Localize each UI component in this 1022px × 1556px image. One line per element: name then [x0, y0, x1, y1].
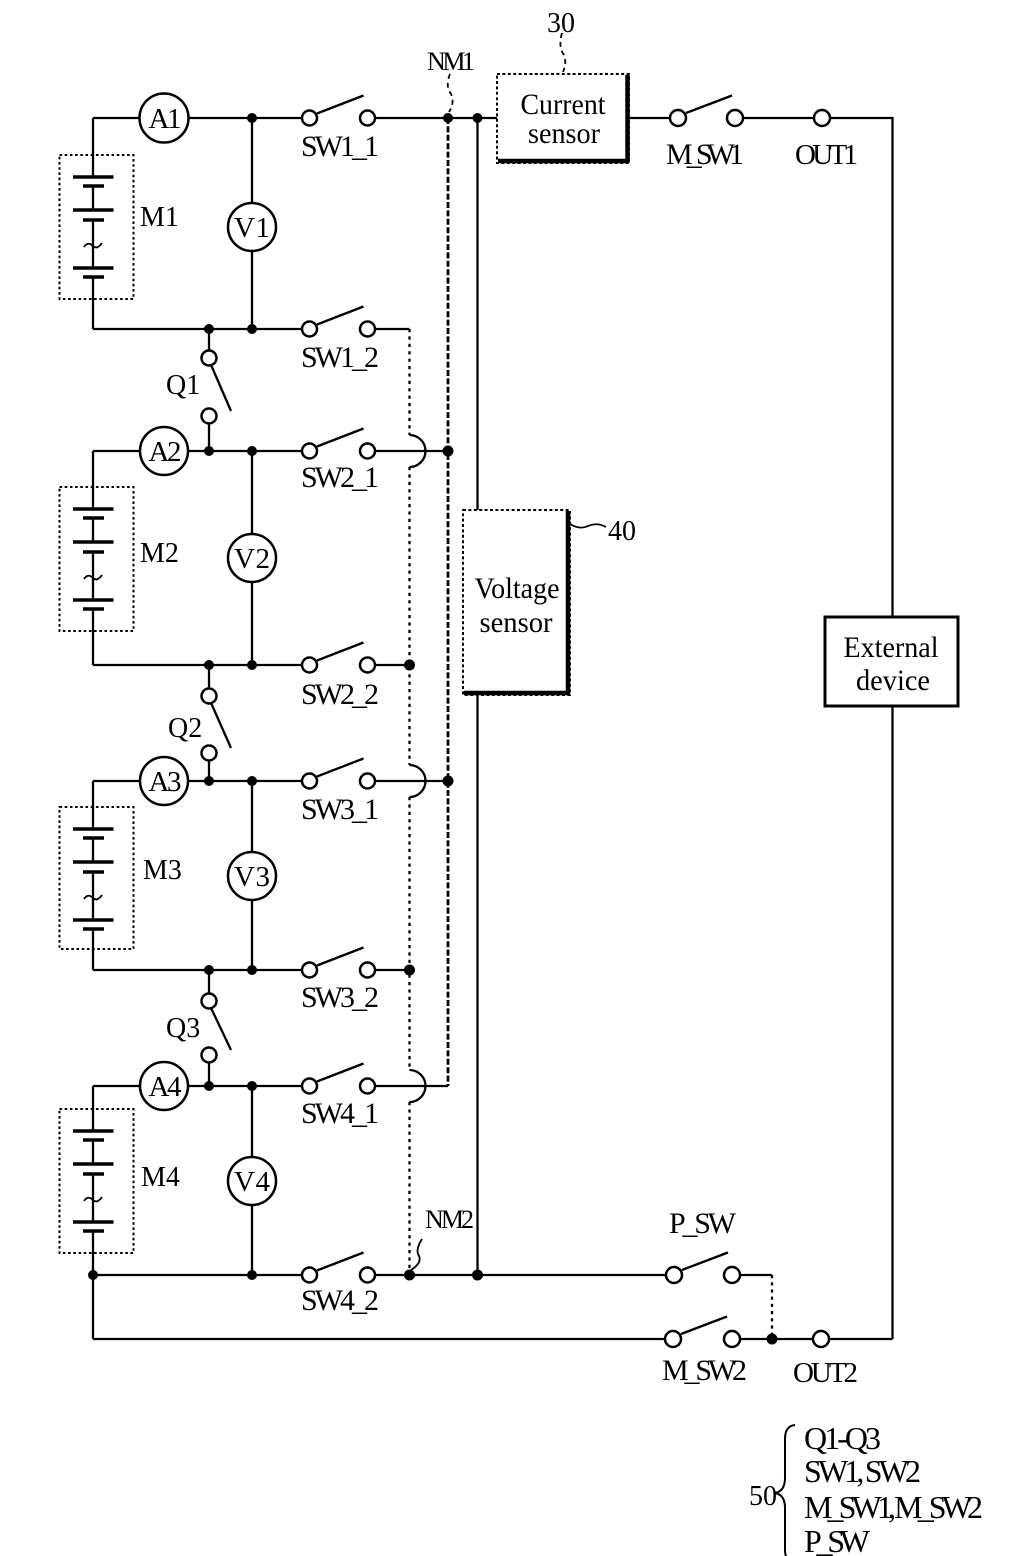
svg-text:M2: M2 [140, 538, 179, 569]
svg-text:OUT2: OUT2 [793, 1357, 858, 1389]
svg-text:M4: M4 [141, 1162, 180, 1193]
svg-text:SW4_2: SW4_2 [301, 1284, 379, 1317]
svg-text:SW3_1: SW3_1 [301, 793, 379, 826]
svg-text:SW1_1: SW1_1 [301, 130, 379, 163]
svg-text:Q1: Q1 [166, 370, 200, 401]
svg-text:Q2: Q2 [168, 713, 202, 744]
svg-text:sensor: sensor [528, 117, 600, 150]
svg-text:device: device [856, 664, 930, 697]
svg-text:P_SW: P_SW [804, 1523, 871, 1556]
svg-text:50: 50 [749, 1481, 777, 1512]
svg-text:Voltage: Voltage [475, 572, 560, 605]
svg-text:SW2_1: SW2_1 [301, 461, 379, 494]
svg-text:V4: V4 [234, 1166, 271, 1198]
svg-text:SW1, SW2: SW1, SW2 [804, 1453, 921, 1489]
svg-text:M_SW1: M_SW1 [666, 138, 744, 171]
svg-text:Q1-Q3: Q1-Q3 [804, 1420, 881, 1456]
svg-text:NM1: NM1 [427, 47, 475, 76]
svg-text:SW3_2: SW3_2 [301, 981, 379, 1014]
svg-text:A2: A2 [149, 436, 182, 468]
svg-text:SW1_2: SW1_2 [301, 341, 379, 374]
svg-text:Q3: Q3 [166, 1013, 200, 1044]
svg-text:V2: V2 [234, 543, 270, 575]
svg-text:NM2: NM2 [425, 1205, 474, 1234]
svg-text:P_SW: P_SW [669, 1207, 737, 1240]
svg-text:M_SW1, M_SW2: M_SW1, M_SW2 [804, 1489, 983, 1525]
svg-text:M3: M3 [143, 855, 182, 886]
svg-text:External: External [844, 631, 939, 664]
svg-text:SW2_2: SW2_2 [301, 678, 379, 711]
svg-text:sensor: sensor [480, 606, 553, 639]
svg-text:M_SW2: M_SW2 [662, 1354, 747, 1387]
svg-text:OUT1: OUT1 [795, 139, 858, 171]
svg-text:V3: V3 [234, 861, 270, 893]
svg-text:V1: V1 [234, 212, 270, 244]
svg-text:30: 30 [547, 8, 575, 39]
svg-text:SW4_1: SW4_1 [301, 1097, 379, 1130]
svg-text:40: 40 [608, 516, 636, 547]
svg-text:M1: M1 [140, 202, 179, 233]
svg-text:A1: A1 [149, 103, 182, 135]
svg-text:A3: A3 [149, 766, 182, 798]
svg-text:A4: A4 [149, 1071, 183, 1103]
